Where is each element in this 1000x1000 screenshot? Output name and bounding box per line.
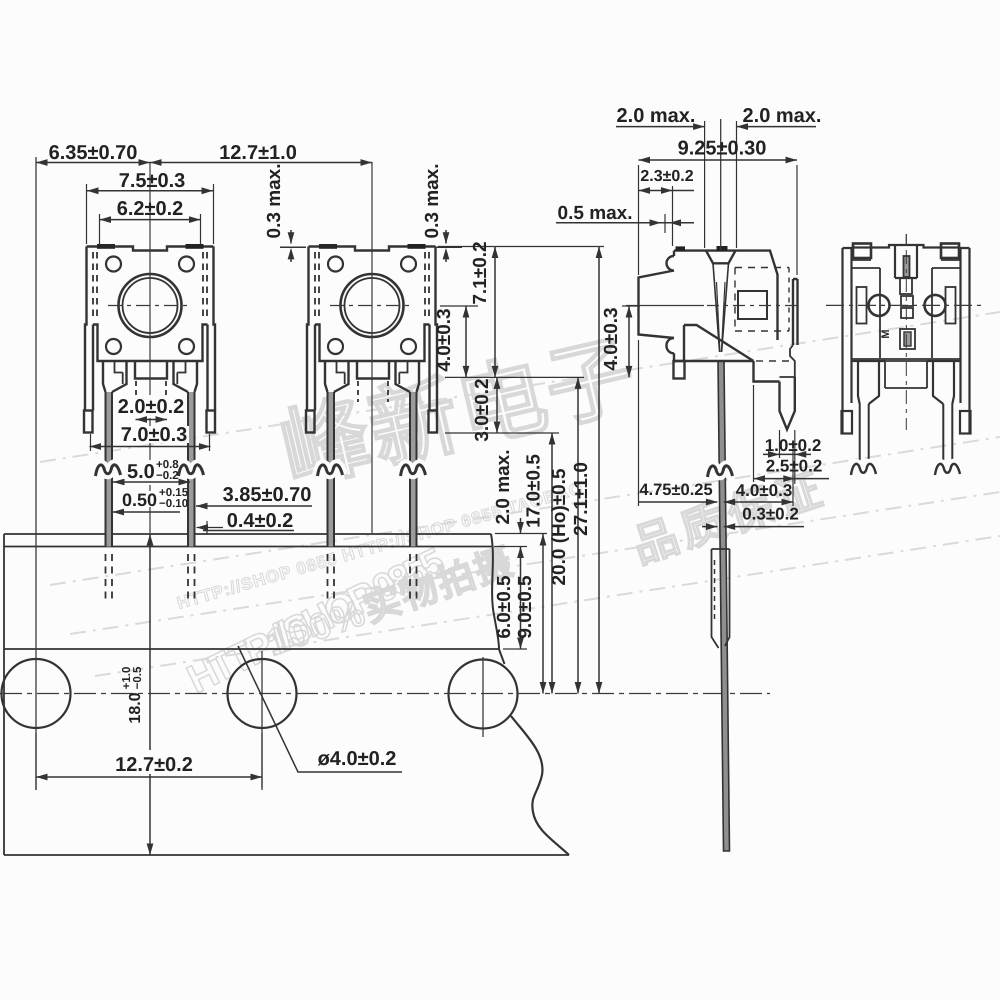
svg-text:−0.2: −0.2	[156, 470, 179, 482]
svg-text:4.75±0.25: 4.75±0.25	[639, 481, 712, 499]
svg-text:7.1±0.2: 7.1±0.2	[470, 241, 491, 304]
svg-text:3.0±0.2: 3.0±0.2	[472, 378, 493, 441]
svg-text:0.3±0.2: 0.3±0.2	[742, 505, 799, 524]
svg-text:9.0±0.5: 9.0±0.5	[515, 575, 536, 639]
svg-text:0.3 max.: 0.3 max.	[422, 164, 443, 239]
svg-text:2.5±0.2: 2.5±0.2	[766, 457, 823, 476]
svg-text:9.25±0.30: 9.25±0.30	[678, 138, 767, 160]
svg-text:6.35±0.70: 6.35±0.70	[49, 142, 138, 164]
svg-text:2.3±0.2: 2.3±0.2	[640, 168, 693, 185]
svg-text:12.7±0.2: 12.7±0.2	[115, 754, 193, 776]
svg-text:12.7±1.0: 12.7±1.0	[219, 142, 297, 164]
svg-text:2.0±0.2: 2.0±0.2	[118, 396, 185, 418]
svg-text:3.85±0.70: 3.85±0.70	[223, 484, 312, 506]
svg-text:18.0: 18.0	[127, 692, 144, 723]
svg-text:M: M	[880, 329, 892, 338]
svg-text:17.0±0.5: 17.0±0.5	[524, 454, 545, 528]
svg-text:7.5±0.3: 7.5±0.3	[119, 170, 186, 192]
svg-text:ø4.0±0.2: ø4.0±0.2	[318, 748, 397, 770]
svg-text:20.0 (Ho)±0.5: 20.0 (Ho)±0.5	[549, 468, 570, 586]
svg-text:0.50: 0.50	[122, 490, 157, 510]
svg-text:1.0±0.2: 1.0±0.2	[765, 436, 822, 455]
svg-text:4.0±0.3: 4.0±0.3	[736, 481, 793, 500]
svg-text:0.4±0.2: 0.4±0.2	[227, 510, 294, 532]
svg-text:5.0: 5.0	[127, 461, 155, 483]
svg-text:4.0±0.3: 4.0±0.3	[601, 307, 622, 370]
svg-text:6.0±0.5: 6.0±0.5	[494, 575, 515, 639]
svg-text:0.3 max.: 0.3 max.	[264, 164, 285, 239]
svg-text:−0.10: −0.10	[159, 498, 188, 510]
svg-text:2.0 max.: 2.0 max.	[617, 105, 696, 127]
svg-text:−0.5: −0.5	[132, 666, 144, 689]
svg-text:0.5 max.: 0.5 max.	[558, 203, 633, 224]
svg-text:6.2±0.2: 6.2±0.2	[117, 198, 184, 220]
svg-text:2.0 max.: 2.0 max.	[493, 450, 514, 525]
svg-text:27.1±1.0: 27.1±1.0	[571, 462, 592, 536]
svg-text:7.0±0.3: 7.0±0.3	[121, 424, 188, 446]
svg-text:2.0 max.: 2.0 max.	[743, 105, 822, 127]
svg-text:4.0±0.3: 4.0±0.3	[434, 308, 455, 371]
